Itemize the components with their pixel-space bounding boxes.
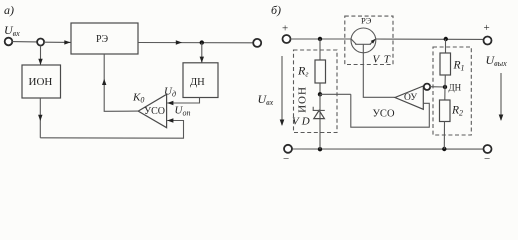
dashed box РЭ (panel b): [345, 16, 393, 64]
top rail left segment: [291, 38, 352, 40]
svg-text:УСО: УСО: [144, 106, 165, 117]
output terminal (panel a): [253, 39, 261, 47]
input terminal (panel a): [5, 38, 13, 46]
wire ИОН node to УСО loop: [320, 93, 351, 95]
junction dot divider branch: [444, 37, 448, 41]
svg-text:УСО: УСО: [373, 109, 395, 120]
svg-text:+: +: [484, 22, 490, 34]
transistor base bar: [355, 43, 371, 45]
block РЭ (panel a): [71, 23, 138, 54]
op-amp УСО (panel a): [138, 94, 166, 127]
wire mid node to R2: [444, 87, 446, 100]
wire input terminal to node: [12, 41, 37, 43]
wire bubble to divider node: [430, 86, 445, 88]
svg-text:ДН: ДН: [190, 77, 205, 88]
transistor VT circle: [351, 28, 376, 53]
dashed box ИОН (panel b): [294, 50, 338, 133]
junction dot divider bottom: [442, 147, 446, 151]
right - terminal (panel b): [484, 145, 492, 153]
svg-text:ДН: ДН: [449, 83, 462, 93]
transistor collector diagonal: [351, 39, 356, 44]
svg-text:б): б): [271, 3, 281, 17]
wire node to zener and bottom rail: [319, 94, 321, 149]
svg-text:РЭ: РЭ: [96, 34, 109, 45]
block ДН (panel a): [183, 63, 218, 98]
wire node down to ИОН with arrow: [40, 46, 42, 66]
wire bottom run to op-amp lower input: [40, 121, 183, 139]
dashed box ДН (panel b): [433, 47, 471, 135]
bottom rail: [292, 148, 483, 150]
junction dot R_г branch: [318, 37, 322, 41]
junction dot divider mid: [443, 85, 447, 89]
junction dot zener bottom: [318, 147, 322, 151]
wire ДН down to op-amp upper input: [167, 98, 199, 104]
top rail right segment: [376, 38, 484, 40]
svg-text:−: −: [283, 153, 289, 165]
op-amp ОУ (panel b): [395, 86, 423, 109]
svg-text:+: +: [282, 23, 288, 35]
zener diode VD: [314, 110, 325, 118]
wire op-amp lower input loop to ИОН: [351, 94, 430, 127]
svg-text:РЭ: РЭ: [361, 16, 372, 26]
resistor R_г: [315, 60, 326, 83]
wire node to РЭ with arrow: [44, 41, 70, 43]
svg-text:ОУ: ОУ: [404, 93, 417, 103]
wire ИОН down with arrow: [39, 98, 41, 138]
svg-text:VD: VD: [292, 116, 310, 128]
wire rail to R_г: [319, 39, 321, 60]
right + terminal (panel b): [484, 37, 492, 45]
wire РЭ to output terminal with arrow: [138, 42, 253, 44]
svg-text:ИОН: ИОН: [297, 86, 309, 113]
wire R_г to node: [319, 83, 321, 94]
svg-text:−: −: [484, 153, 490, 165]
block ИОН (panel a): [22, 65, 61, 98]
wire R2 to bottom rail: [443, 122, 445, 150]
wire R1 to mid node: [444, 75, 446, 87]
transistor base lead down: [363, 44, 395, 97]
svg-text:ИОН: ИОН: [29, 76, 53, 88]
wire op-amp output to РЭ with up arrow: [104, 54, 138, 111]
left - terminal (panel b): [284, 145, 292, 153]
transistor emitter diagonal with arrow: [370, 39, 375, 44]
wire rail to R1: [445, 39, 447, 53]
resistor R1: [440, 53, 451, 75]
node circle (panel a input node): [37, 39, 44, 46]
junction dot ИОН node: [318, 92, 322, 96]
resistor R2: [440, 100, 451, 122]
inversion bubble: [424, 84, 430, 90]
wire node down to ДН with arrow: [201, 43, 203, 63]
left + terminal (panel b): [283, 35, 291, 43]
junction dot (panel a output node): [200, 40, 204, 44]
svg-text:а): а): [4, 3, 14, 17]
